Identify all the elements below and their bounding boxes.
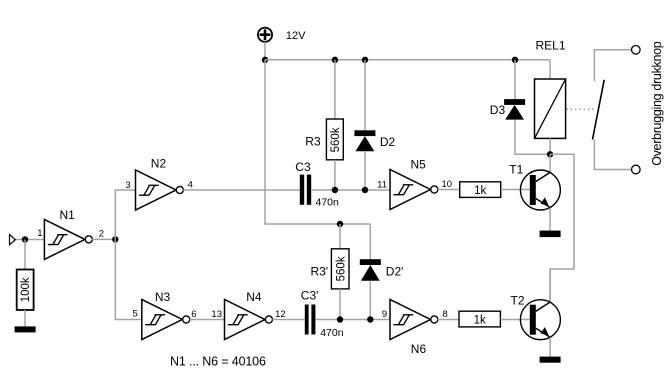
switch blade — [593, 80, 605, 140]
diode D3 — [490, 99, 525, 120]
resistor R (100k) — [17, 270, 34, 311]
resistor R4 (1k) — [460, 182, 501, 198]
node R3'-C3' junction — [337, 316, 343, 322]
svg-text:N3: N3 — [155, 290, 171, 304]
svg-text:11: 11 — [377, 180, 387, 191]
svg-text:1k: 1k — [474, 185, 486, 197]
wire R3 bottom — [334, 160, 336, 190]
node R3 top junction — [332, 57, 338, 63]
svg-text:REL1: REL1 — [536, 39, 566, 53]
wire D2 bottom — [364, 151, 366, 190]
op-amp U2: Schmitt inverter N2 — [136, 157, 184, 211]
wire switch top lead — [594, 50, 631, 81]
svg-text:5: 5 — [133, 309, 138, 320]
svg-text:N2: N2 — [151, 157, 167, 171]
svg-text:4: 4 — [188, 180, 193, 191]
wire N5 to R4 — [438, 189, 460, 191]
diode D2' — [360, 259, 404, 281]
wire N3 out to N4 in — [190, 319, 225, 321]
wire T1 emitter to ground — [549, 208, 551, 231]
svg-text:R3': R3' — [310, 265, 328, 279]
wire R3 top — [334, 60, 336, 119]
op-amp U4: Schmitt inverter N4 — [225, 290, 273, 340]
svg-text:D2: D2 — [380, 135, 396, 149]
node relay-T1 junction — [547, 151, 553, 157]
wire R3' bottom — [339, 289, 341, 320]
svg-text:13: 13 — [211, 309, 222, 320]
capacitor C3' (470n) — [301, 289, 344, 339]
svg-text:Overbrugging drukknop: Overbrugging drukknop — [650, 41, 664, 166]
node 2 junction — [112, 236, 118, 242]
svg-text:10: 10 — [442, 179, 453, 190]
svg-text:R3: R3 — [305, 135, 321, 149]
12V supply terminal — [258, 28, 306, 42]
wire D2' top — [369, 224, 371, 259]
wire 12V to rail — [264, 42, 266, 60]
node R3-C3 junction — [332, 187, 338, 193]
svg-text:D3: D3 — [490, 103, 506, 117]
svg-text:N5: N5 — [411, 158, 427, 172]
svg-text:8: 8 — [443, 309, 448, 320]
wire C3' to N6 — [315, 319, 390, 321]
op-amp U3: Schmitt inverter N3 — [142, 290, 190, 340]
node D2'-C3' junction — [367, 316, 373, 322]
relay REL1 — [535, 39, 566, 139]
wire input stub to N1 — [15, 239, 44, 241]
svg-text:3: 3 — [125, 180, 130, 191]
resistor R5 (1k) — [459, 311, 500, 327]
wire node2 up to N2 input — [115, 190, 135, 239]
node D2-C3 junction — [362, 187, 368, 193]
node D2 top junction — [362, 57, 368, 63]
node rail-left junction — [262, 57, 268, 63]
wire T1 collector — [549, 154, 551, 172]
wire T2 emitter to ground — [549, 338, 551, 357]
wire rail to relay — [549, 60, 551, 79]
wire switch bottom lead — [594, 140, 631, 170]
svg-text:N1: N1 — [60, 208, 76, 222]
wire R5 to T2 base — [500, 319, 529, 321]
wire D3 top — [514, 60, 516, 99]
resistor R3' (560k) — [310, 249, 349, 289]
wire C3 to N5 — [311, 189, 390, 191]
wire D2 top — [364, 60, 366, 131]
svg-text:560k: 560k — [330, 127, 342, 152]
svg-text:D2': D2' — [386, 265, 404, 279]
wire node2 down to N3 input — [115, 239, 142, 319]
op-amp U5: Schmitt inverter N5 — [390, 158, 438, 210]
svg-text:N6: N6 — [411, 342, 427, 356]
lower feed node R3' junction — [337, 221, 343, 227]
dotted relay-switch link — [567, 108, 594, 110]
wire relay bottom — [549, 138, 551, 154]
svg-text:9: 9 — [382, 309, 387, 320]
wire N1 out to node 2 — [92, 238, 115, 240]
svg-text:C3': C3' — [301, 289, 319, 303]
wire N4 out to C3' — [272, 319, 305, 321]
svg-text:560k: 560k — [335, 256, 347, 281]
wire node to 100k — [24, 240, 26, 270]
capacitor C3 (470n) — [295, 160, 339, 209]
wire junction to T2 branch — [550, 154, 574, 301]
ground (T1) — [540, 231, 561, 238]
input connector — [10, 235, 16, 245]
switch terminal top — [632, 46, 641, 55]
svg-text:2: 2 — [99, 229, 104, 240]
svg-text:C3: C3 — [295, 160, 311, 174]
wire 100k to ground — [24, 310, 26, 327]
svg-text:1k: 1k — [474, 314, 486, 326]
svg-text:470n: 470n — [316, 197, 340, 209]
svg-text:100k: 100k — [20, 277, 32, 302]
node input junction — [22, 236, 28, 242]
transistor Q1: T1 — [509, 163, 560, 211]
diode D2 — [354, 130, 395, 151]
wire D2' bottom — [369, 281, 371, 320]
wire N2 out to C3 — [183, 189, 300, 191]
svg-text:470n: 470n — [320, 327, 344, 339]
op-amp U1: Schmitt inverter N1 — [44, 208, 92, 259]
transistor Q2: T2 — [511, 294, 561, 340]
resistor R3 (560k) — [305, 119, 343, 160]
svg-text:12: 12 — [275, 309, 286, 320]
node D3 top junction — [512, 57, 518, 63]
wire R4 to T1 base — [501, 189, 530, 191]
wire D3 bottom — [515, 120, 550, 155]
svg-text:N4: N4 — [246, 290, 262, 304]
wire rail drop to lower feed — [265, 60, 370, 224]
switch terminal bottom — [632, 165, 641, 174]
svg-text:T2: T2 — [511, 294, 525, 308]
svg-text:1: 1 — [37, 228, 42, 239]
wire 12V rail — [265, 59, 550, 61]
svg-text:6: 6 — [191, 309, 196, 320]
svg-text:T1: T1 — [509, 163, 523, 177]
wire R3' top — [339, 224, 341, 249]
wire T2 collector — [549, 269, 551, 302]
ground (T2) — [540, 357, 561, 363]
svg-text:12V: 12V — [286, 30, 306, 42]
op-amp U6: Schmitt inverter N6 — [390, 300, 438, 356]
wire N6 to R5 — [438, 319, 459, 321]
ground (100k) — [15, 326, 36, 332]
svg-text:N1 ... N6 = 40106: N1 ... N6 = 40106 — [170, 355, 266, 369]
